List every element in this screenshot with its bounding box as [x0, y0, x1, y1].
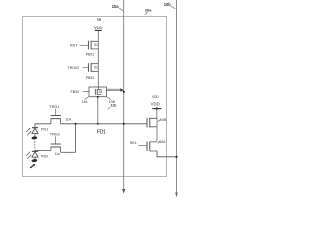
svg-text:11n: 11n: [55, 152, 61, 156]
svg-text:10a: 10a: [112, 4, 120, 9]
wire RST gate: [80, 44, 89, 46]
pixel boundary box 20: [23, 17, 167, 177]
bus arrow box to line 10a: [107, 89, 121, 91]
leader 20: [145, 12, 148, 15]
leader 13B: [107, 97, 111, 99]
junction box bottom: [97, 96, 99, 98]
transistor 51 reset: [87, 41, 89, 50]
vertical signal line 10a: [123, 0, 125, 191]
svg-text:TRG02: TRG02: [68, 66, 80, 70]
vertical signal line 10b: [176, 0, 178, 194]
leader SF label: [158, 119, 161, 121]
svg-text:1a: 1a: [97, 17, 102, 21]
svg-text:SEL: SEL: [130, 141, 137, 145]
junction on line 10b: [175, 156, 177, 158]
wire box to FD rail: [97, 97, 99, 124]
light arrows PDn: [27, 156, 30, 159]
VDD bar right: [152, 108, 161, 110]
transistor SEL: [146, 141, 148, 151]
FD rail right segment: [61, 123, 148, 125]
PDn anode plate: [31, 159, 37, 163]
svg-text:10A: 10A: [159, 140, 166, 144]
wire TG2 gate: [55, 136, 57, 144]
photodiode PDn: [32, 150, 38, 152]
wire 52 to switch box: [97, 64, 99, 90]
junction on line 10a: [123, 91, 125, 93]
PD1 anode plate: [31, 136, 37, 140]
FD rail left segment: [35, 124, 51, 128]
svg-text:53: 53: [99, 90, 103, 94]
svg-text:PB52: PB52: [86, 76, 94, 80]
junction box wire with FD rail: [97, 123, 99, 125]
photodiode PD1: [32, 127, 38, 129]
arrowhead line 10a: [122, 189, 125, 194]
arrowhead line 10b: [175, 193, 178, 198]
transistor TGn: [51, 143, 61, 145]
svg-text:RST: RST: [70, 42, 78, 47]
junction TG outputs: [75, 123, 77, 125]
svg-text:TRG1: TRG1: [49, 105, 59, 109]
leader 10b: [171, 6, 175, 9]
light arrows PD1: [27, 132, 30, 135]
svg-text:10b: 10b: [164, 2, 172, 7]
wire VDD to RST: [97, 30, 99, 41]
svg-text:20a: 20a: [145, 7, 152, 12]
bold light arrow PDn: [30, 165, 33, 168]
leader 1b: [108, 107, 111, 110]
svg-text:TRGn: TRGn: [50, 132, 60, 136]
wire SEL gate: [138, 145, 147, 147]
svg-text:VDD: VDD: [151, 102, 160, 107]
svg-text:PB51: PB51: [86, 52, 94, 56]
wire FB32 gate: [83, 90, 89, 92]
svg-text:13A: 13A: [82, 100, 89, 104]
dashed line omitted photodiodes: [34, 141, 36, 150]
wire SEL out to line 10b: [157, 151, 177, 157]
wire TGn out: [61, 151, 76, 153]
svg-text:VDD: VDD: [152, 95, 159, 99]
svg-text:51: 51: [94, 43, 98, 47]
wire VDD to SF: [156, 109, 158, 119]
leader SEL label: [158, 141, 160, 143]
svg-text:PD1: PD1: [41, 128, 48, 132]
svg-text:10B: 10B: [160, 118, 167, 122]
wire TG1 gate: [55, 109, 57, 116]
VDD bar top: [95, 29, 102, 31]
junction FD with line 10a: [123, 123, 125, 125]
svg-text:52: 52: [94, 66, 98, 70]
svg-text:FD1: FD1: [97, 130, 106, 136]
wire TG bus vertical: [75, 124, 77, 153]
wire 51 to 52: [97, 41, 99, 63]
svg-text:FB32: FB32: [71, 90, 80, 94]
transistor TG1: [51, 115, 61, 117]
transistor 52: [87, 63, 89, 72]
wire PDn to TGn: [35, 149, 51, 152]
svg-text:VDD: VDD: [94, 25, 103, 30]
leader 10a: [119, 8, 123, 11]
transistor 53 inside box: [94, 89, 96, 95]
transistor SF: [146, 118, 148, 128]
svg-text:PDn: PDn: [41, 155, 48, 159]
wire SF to SEL: [156, 118, 158, 141]
leader 13A: [85, 97, 89, 99]
svg-text:11b: 11b: [111, 104, 118, 108]
svg-text:11A: 11A: [66, 117, 72, 121]
wire TRG02 gate: [83, 67, 89, 69]
switch block 53 box: [89, 87, 107, 97]
